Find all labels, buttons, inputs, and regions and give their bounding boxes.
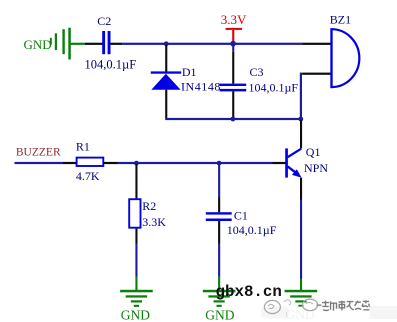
svg-text:4.7K: 4.7K bbox=[76, 169, 100, 183]
junction dot base rail / C1 bbox=[217, 161, 222, 166]
wire green from ground to C2 bbox=[71, 43, 86, 45]
svg-text:104,0.1µF: 104,0.1µF bbox=[85, 57, 137, 71]
ground symbol below R2 bbox=[120, 290, 153, 307]
wire emitter lead black bbox=[300, 178, 302, 200]
wire C2 pin 2 black bbox=[111, 43, 123, 45]
watermark faint mark between circles bbox=[284, 300, 291, 305]
wire top rail navy bbox=[122, 43, 302, 45]
svg-text:BUZZER: BUZZER bbox=[16, 147, 61, 159]
svg-text:R2: R2 bbox=[142, 199, 156, 213]
wire C1 green to ground bbox=[218, 277, 220, 291]
ground GND top-left symbol bbox=[50, 28, 71, 60]
watermark white blur box bbox=[287, 307, 375, 320]
resistor R2 bbox=[129, 199, 140, 228]
svg-text:Q1: Q1 bbox=[306, 145, 321, 159]
svg-text:gbx8.cn: gbx8.cn bbox=[216, 283, 282, 301]
svg-text:C3: C3 bbox=[250, 65, 264, 79]
watermark gray logo circle left bbox=[264, 300, 280, 313]
wire C1 navy down bbox=[218, 244, 220, 277]
wire base rail navy middle bbox=[118, 162, 273, 164]
wire C1 top pin black bbox=[218, 197, 220, 212]
capacitor C1 bbox=[206, 212, 232, 221]
junction dot bottom rail / collector bbox=[298, 117, 303, 122]
wire R1 pin 1 black bbox=[63, 162, 76, 164]
svg-text:C2: C2 bbox=[97, 14, 111, 28]
watermark gray logo circle right bbox=[302, 299, 317, 310]
svg-text:GND: GND bbox=[121, 308, 150, 322]
wire D1 cathode lead black bbox=[165, 45, 167, 72]
wire collector lead black bbox=[300, 120, 302, 148]
svg-text:GND: GND bbox=[205, 307, 234, 322]
wire base pin black bbox=[273, 162, 286, 164]
buzzer BZ1 bbox=[330, 28, 359, 87]
diode D1 bbox=[151, 71, 181, 89]
wire D1 anode lead black bbox=[165, 90, 167, 118]
wire buzzer bottom pin black bbox=[302, 73, 330, 75]
svg-text:104,0.1µF: 104,0.1µF bbox=[227, 223, 277, 237]
svg-text:GND: GND bbox=[24, 37, 52, 52]
resistor R1 bbox=[77, 158, 104, 166]
transistor Q1 bbox=[285, 148, 301, 177]
junction dot top rail / D1 bbox=[164, 41, 169, 46]
wire bottom rail navy bbox=[165, 118, 302, 120]
capacitor C3 bbox=[220, 84, 247, 92]
junction dot base rail / R2 bbox=[134, 161, 139, 166]
svg-text:BZ1: BZ1 bbox=[330, 13, 351, 27]
watermark dash before CJK text bbox=[317, 304, 322, 306]
junction dot top rail / 3.3V / C3 bbox=[230, 41, 236, 47]
wire emitter navy down bbox=[300, 200, 302, 279]
svg-text:D1: D1 bbox=[182, 65, 197, 79]
wire C1 navy from junction bbox=[218, 164, 220, 197]
svg-text:104,0.1µF: 104,0.1µF bbox=[249, 81, 299, 95]
ground symbol below Q1 emitter bbox=[285, 290, 318, 307]
svg-text:3.3V: 3.3V bbox=[221, 12, 247, 27]
watermark CJK-style text strokes bbox=[322, 300, 370, 310]
wire C2 pin 1 black bbox=[85, 43, 102, 45]
svg-text:IN4148: IN4148 bbox=[181, 79, 221, 93]
svg-text:3.3K: 3.3K bbox=[142, 215, 166, 229]
svg-text:R1: R1 bbox=[76, 140, 90, 154]
wire navy from buzzer down to bottom rail bbox=[300, 73, 302, 118]
capacitor C2 bbox=[102, 31, 110, 54]
wire C1 bottom pin black bbox=[218, 221, 220, 244]
power symbol 3.3V bbox=[226, 28, 243, 43]
wire C3 top lead black bbox=[232, 45, 234, 52]
junction dot bottom rail / C3 bbox=[231, 117, 236, 122]
wire R2 navy down bbox=[135, 244, 137, 277]
svg-text:NPN: NPN bbox=[304, 161, 328, 175]
wire R2 top lead black bbox=[135, 164, 137, 198]
wire base rail navy left bbox=[15, 162, 64, 164]
wire C3 bottom lead black bbox=[232, 91, 234, 118]
ground symbol below C1 bbox=[203, 290, 236, 307]
wire R2 bottom lead black bbox=[135, 229, 137, 244]
wire R2 green to ground bbox=[135, 277, 137, 291]
svg-text:C1: C1 bbox=[234, 208, 248, 222]
wire emitter green to ground bbox=[300, 279, 302, 291]
wire R1 pin 2 black bbox=[104, 162, 118, 164]
wire buzzer top pin black bbox=[302, 43, 330, 45]
